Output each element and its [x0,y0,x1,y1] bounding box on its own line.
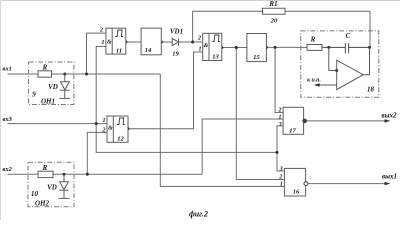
svg-text:VD: VD [47,184,57,192]
node 13.out branch [235,46,238,49]
svg-text:R: R [42,164,48,172]
gate block 12 (AND pulse) [102,116,129,143]
node net3 y152 [276,151,279,154]
resistor R (in OH2) [38,171,53,177]
svg-text:1: 1 [280,182,283,188]
wire вх1 input [8,73,161,75]
svg-text:11: 11 [116,48,122,55]
wire 14.out to VD1 [161,41,172,43]
node OH2 diode tap [63,173,66,176]
node вх2/12.in2 [86,173,89,176]
node вх3/12.in1 [95,122,98,125]
svg-text:9: 9 [32,91,36,99]
diode VD1 (19) [172,38,178,45]
op-amp U18 [337,60,364,89]
arrow к и.п. [307,77,337,87]
wire R1 to box18 C node [285,11,370,47]
svg-text:вых2: вых2 [382,112,397,120]
node 15.out branch [274,46,277,49]
resistor R1 (20) [263,8,286,14]
gate block 17 [278,107,307,134]
svg-text:вх2: вх2 [3,166,13,173]
svg-text:2: 2 [278,175,282,181]
svg-text:16: 16 [293,189,300,196]
svg-text:ОН1: ОН1 [41,98,55,106]
node 12.out [127,127,130,130]
svg-text:12: 12 [117,136,124,143]
wire вх2 up to 17.in1 [202,119,283,174]
node 11.out [124,41,127,44]
wire 12.out up to 13.in1 [128,52,203,129]
wire RC node to op-amp input [329,47,337,70]
wire 11.out to 14 [126,41,141,43]
wire 13.out to 15 [222,47,247,49]
wire 15.out to box18 R [266,46,307,48]
svg-text:1: 1 [102,40,105,46]
wire riser 12.in2 [87,132,107,174]
svg-text:R: R [42,64,48,72]
capacitor C (in 18) [322,43,370,53]
block 15 [247,34,267,62]
svg-text:вых1: вых1 [382,173,397,181]
optocoupler box OH1 (9) [29,62,74,105]
svg-text:&: & [204,43,209,49]
svg-text:15: 15 [253,54,260,61]
node VD1/R1 [191,41,194,44]
wire riser 17.in3 16.in3 [277,126,284,171]
svg-text:вх1: вх1 [3,66,12,73]
svg-text:фиг.2: фиг.2 [189,210,208,219]
svg-text:VD1: VD1 [170,28,183,36]
wire feedback up to R1 [193,11,263,42]
gate block 16 [278,167,308,197]
page edge top [0,0,400,2]
page edge left [0,0,2,220]
wire вых1 [308,183,388,185]
svg-text:18: 18 [367,86,375,94]
svg-text:3: 3 [279,167,283,173]
svg-text:ОН2: ОН2 [35,200,50,208]
node op-amp input [335,69,338,72]
svg-text:&: & [108,126,113,132]
node 15.out [265,46,268,49]
integrator box 18 [301,31,379,97]
svg-text:VD: VD [48,83,58,91]
svg-text:13: 13 [212,54,219,61]
wire 13.out down to 16.in2 [236,48,284,180]
svg-text:1: 1 [103,118,106,124]
svg-text:20: 20 [270,18,278,25]
svg-text:R: R [310,36,316,44]
wire вх1 net down to block16 in1 [160,74,284,187]
wire вых2 [307,120,388,122]
svg-text:R1: R1 [268,0,277,8]
gate block 11 (AND pulse) [99,28,126,55]
wire riser вх1 to 11.in2 [87,33,106,74]
svg-text:к и.п.: к и.п. [307,77,321,83]
node OH1 diode tap [63,73,66,76]
svg-text:C: C [345,32,350,40]
svg-text:10: 10 [31,190,39,198]
wire вх2 input [8,173,203,175]
svg-text:14: 14 [145,47,152,54]
node вх1/11.in2 [85,73,88,76]
wire op-amp output to C node [363,47,369,74]
optocoupler box OH2 (10) [28,162,74,207]
svg-text:2: 2 [102,128,106,134]
diode VD (in OH1) [59,74,70,98]
svg-text:17: 17 [289,128,296,135]
node C out [368,46,371,49]
wire вх3 input to 12.in1 [8,123,108,125]
svg-text:1: 1 [279,115,282,121]
block 14 [141,28,161,55]
svg-text:3: 3 [278,122,282,128]
gate block 13 (AND pulse) [197,33,222,60]
svg-text:2: 2 [278,108,282,114]
svg-text:&: & [107,40,112,46]
diode VD (in OH2) [59,174,70,198]
resistor R (in 18) [307,45,322,51]
resistor R (in OH1) [38,71,52,77]
svg-text:1: 1 [199,47,202,53]
node 14.out [160,41,163,44]
node R-C [327,46,330,49]
svg-text:2: 2 [99,28,103,34]
node 13.out [220,46,223,49]
wire 15.out down to 17.in2 [275,47,283,112]
svg-text:2: 2 [197,36,201,42]
wire VD1 to 13.in2 [179,41,203,43]
svg-text:вх3: вх3 [3,116,13,123]
svg-text:19: 19 [172,51,179,58]
wire net вх3 vertical 11.in1 down to y152 [96,47,277,153]
